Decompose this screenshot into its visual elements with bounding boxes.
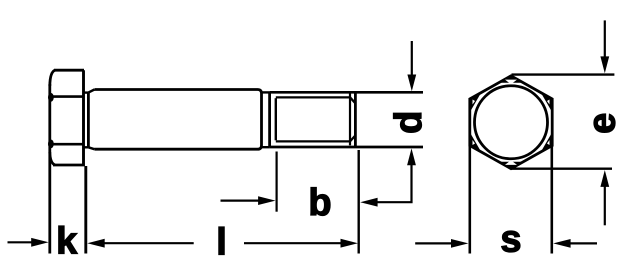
extension line at thread start (for b) [276,152,278,212]
dimension k: leader tail left [8,241,33,243]
dimension l: left arrowhead pointing left [87,239,104,248]
svg-text:d: d [388,111,430,134]
dimension b: left arrowhead pointing right [258,196,275,205]
dimension e: upper arrowhead pointing down [600,56,609,73]
dimension b: leader tail right with corner up to d line [372,165,412,202]
thread major diameter top line + d extension line [270,91,423,94]
e extension line top (from hexagon top corner) [512,73,615,75]
dimension e: lower arrowhead pointing up [600,170,609,187]
dimension e: label (rotated) [582,113,624,134]
thread start face [268,92,271,147]
thread end chamfer diagonal top [350,97,355,103]
head facet junction blob lower [48,140,54,149]
e extension line bottom (from hexagon bottom corner) [512,167,613,169]
dimension s: leader tail right [568,242,597,244]
svg-text:s: s [500,219,521,261]
head facet line lower [50,143,84,146]
shank left chamfer bottom [88,147,94,149]
hexagon corner wedge lower-left [470,132,482,152]
dimension e: lower leader line [604,183,606,225]
hexagon corner white notch lower-left [473,140,476,145]
hexagon corner wedge lower-right [541,132,553,152]
shank left end face [87,93,90,148]
dimension b: right arrowhead pointing left [360,198,377,207]
s extension line right (hexagon flat extended) [550,146,553,254]
shank left chamfer top [88,90,94,93]
svg-text:l: l [216,222,227,264]
hexagon corner white notch bottom [505,160,517,165]
hexagon corner wedge top [499,76,523,83]
head undercut groove bottom line [84,146,89,148]
hexagon head end view outline [470,76,552,169]
dimension e: upper leader line [604,20,606,58]
shank outline (top, right end, bottom) [94,90,261,150]
hexagon corner wedge upper-left [470,92,482,112]
head chamfer arc top-left [50,70,55,86]
dimension l: right arrowhead pointing right [341,239,358,248]
dimension d: lower arrowhead pointing up [407,148,416,165]
dimension s: right arrowhead pointing left [553,239,570,248]
dimension s: leader tail left [415,242,452,244]
thread undercut groove top line [262,91,270,93]
dimension d: upper arrowhead pointing down [407,75,416,92]
svg-text:e: e [582,113,624,134]
dimension l: line left segment [100,242,194,244]
head facet line upper [50,95,84,98]
bolt head top face line [54,69,84,72]
svg-text:b: b [308,182,331,224]
dimension l: line right segment [244,242,350,244]
hexagon chamfer circle [475,86,548,159]
bolt head left face + k extension line [48,84,51,254]
head undercut groove top line [84,91,89,93]
hexagon corner wedge bottom [499,162,523,169]
hexagon corner white notch upper-left [473,100,476,105]
dimension s: left arrowhead pointing right [451,239,468,248]
head facet junction blob upper [48,93,54,102]
shared k/l extension line below head [84,166,87,254]
thread end chamfer diagonal bottom [350,136,355,142]
hexagon corner white notch upper-right [547,100,550,105]
thread chamfer start line [349,94,351,146]
dimension k: arrowhead pointing right [31,238,48,247]
bolt end face [354,92,357,147]
thread minor diameter top line [276,96,350,98]
thread minor diameter left boundary [275,98,277,140]
thread undercut groove bottom line [262,146,270,148]
dimension d: label (rotated) [388,111,430,134]
dimension d: upper leader line [411,41,413,80]
bolt head right face + shared k/l extension line [82,70,85,166]
extension line at bolt end (for l and b) [358,150,360,254]
s extension line left (hexagon flat extended) [468,146,471,254]
hexagon corner white notch lower-right [547,140,550,145]
dimension b: leader tail left [221,200,261,202]
hexagon corner white notch top [505,80,517,85]
thread major diameter bottom line + d extension line [270,146,423,149]
head chamfer arc bottom-left [50,152,55,165]
bolt head bottom face line [53,164,85,167]
svg-text:k: k [56,221,78,263]
thread minor diameter bottom line [276,140,350,142]
hexagon corner wedge upper-right [541,92,553,112]
